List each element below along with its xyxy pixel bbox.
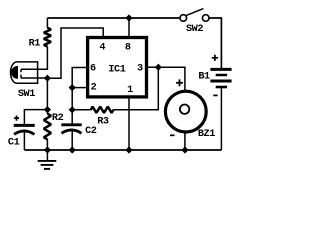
svg-text:C2: C2 bbox=[85, 126, 97, 137]
svg-text:1: 1 bbox=[127, 85, 133, 96]
svg-text:R3: R3 bbox=[97, 117, 109, 128]
svg-text:2: 2 bbox=[91, 82, 97, 93]
wire pin 3 bbox=[147, 66, 159, 68]
minus sign B1 bbox=[213, 94, 217, 96]
junction dot pin 3 node bbox=[155, 64, 162, 71]
junction dot C1 branch bbox=[44, 106, 51, 113]
svg-text:SW2: SW2 bbox=[186, 24, 203, 35]
svg-text:R1: R1 bbox=[29, 39, 41, 50]
plus sign BZ1 bbox=[176, 79, 183, 86]
junction dot pin 8 / top rail bbox=[125, 14, 132, 21]
wire pin 8 riser bbox=[128, 18, 130, 37]
wire R3 left lead bbox=[72, 109, 91, 111]
wire bottom ground rail bbox=[24, 149, 221, 151]
junction dot C2 bottom bbox=[69, 146, 76, 153]
junction dot R2 bottom / ground bbox=[44, 146, 51, 153]
wire SW2 to battery positive (top-right corner) bbox=[209, 18, 221, 68]
switch SW2 bbox=[180, 9, 209, 22]
wire pin 3 node to buzzer top bbox=[158, 67, 185, 92]
wire SW1/R2 node to IC1 pin 4 bbox=[47, 28, 103, 78]
wire pin 2 bbox=[72, 87, 87, 89]
tilt switch SW1 bbox=[11, 62, 48, 83]
wire pin 1 riser down to ground rail bbox=[128, 97, 130, 150]
buzzer BZ1 bbox=[165, 91, 206, 150]
junction dot R3 / C2 node bbox=[69, 106, 76, 113]
minus sign BZ1 bbox=[170, 134, 175, 136]
wire pin 6 to pins 2/6 node bbox=[72, 68, 87, 88]
battery B1 bbox=[210, 69, 231, 87]
svg-text:3: 3 bbox=[137, 63, 143, 74]
svg-text:C1: C1 bbox=[8, 137, 20, 148]
wire R3 right lead up to pin 3 node bbox=[114, 67, 159, 110]
wire pins 2/6 node down to C2 bbox=[71, 88, 73, 124]
plus sign B1 bbox=[212, 55, 218, 61]
svg-text:R2: R2 bbox=[52, 113, 64, 124]
capacitor C2 bbox=[61, 125, 81, 150]
resistor R2 bbox=[44, 114, 51, 140]
svg-text:6: 6 bbox=[90, 64, 96, 75]
wire SW1 junction down through R2 node to ground rail bbox=[46, 78, 48, 150]
svg-text:B1: B1 bbox=[198, 72, 210, 83]
svg-text:4: 4 bbox=[99, 42, 105, 53]
resistor R1 bbox=[44, 18, 51, 46]
svg-text:8: 8 bbox=[125, 42, 131, 53]
resistor R3 bbox=[91, 107, 114, 113]
ground symbol bbox=[38, 150, 57, 169]
junction dot BZ1 bottom bbox=[181, 146, 188, 153]
plus sign C1 bbox=[14, 116, 19, 121]
svg-text:IC1: IC1 bbox=[108, 64, 125, 75]
wire junction to C1 top bbox=[24, 110, 47, 125]
junction dot pin 1 bbox=[125, 146, 132, 153]
capacitor C1 bbox=[14, 125, 35, 150]
wire top rail (V+ from R1 top to SW2) bbox=[47, 17, 180, 19]
wire battery negative down to rail bbox=[220, 88, 222, 150]
svg-text:SW1: SW1 bbox=[18, 89, 35, 100]
junction dot pin 2 node bbox=[69, 84, 76, 91]
junction dot SW1 bottom contact bbox=[44, 75, 51, 82]
svg-text:BZ1: BZ1 bbox=[198, 129, 215, 140]
wire R1 bottom to SW1 top contact bbox=[21, 46, 47, 69]
IC1 box bbox=[88, 38, 147, 97]
